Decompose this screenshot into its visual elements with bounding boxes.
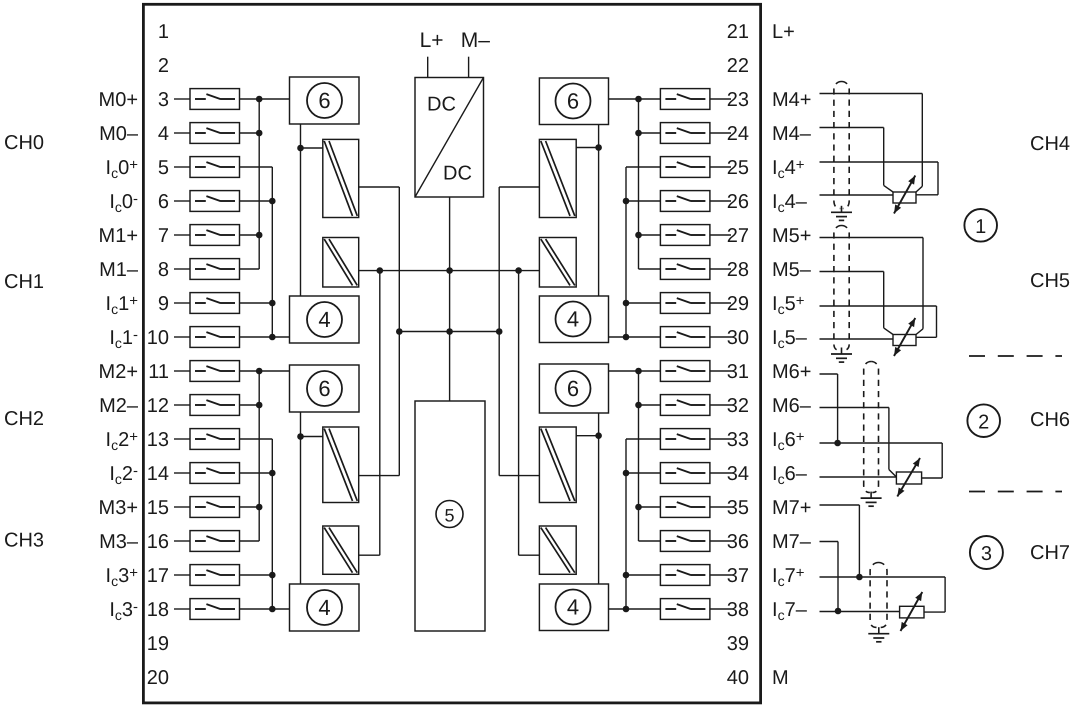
separator dashed line 2 <box>969 491 1062 493</box>
net label M5– (pin 28) <box>772 259 812 281</box>
pin 12 <box>147 395 169 417</box>
wire: DC/DC to block 5 <box>449 197 451 401</box>
contact switch pin 5 <box>190 157 240 178</box>
svg-text:29: 29 <box>727 293 749 315</box>
contact switch pin 7 <box>190 225 240 246</box>
pin 8 <box>158 259 169 281</box>
net label M4– (pin 24) <box>772 123 812 145</box>
wire: contact to pin 33 <box>710 438 731 440</box>
junction pin 23 <box>635 96 642 103</box>
DC/DC converter <box>415 78 484 198</box>
contact switch pin 13 <box>190 429 240 450</box>
svg-text:22: 22 <box>727 55 749 77</box>
wire: pin 3 to contact <box>174 98 190 100</box>
wire: pin 15 to contact <box>174 506 190 508</box>
svg-text:M4+: M4+ <box>772 89 811 111</box>
contact switch pin 14 <box>190 463 240 484</box>
pin 31 <box>727 361 749 383</box>
contact switch pin 12 <box>190 395 240 416</box>
svg-text:M5–: M5– <box>772 259 812 281</box>
isolation barrier (CH0/CH1 aux) <box>323 238 359 288</box>
net label 7+ (pin 37) <box>772 565 805 590</box>
svg-text:8: 8 <box>158 259 169 281</box>
svg-text:M3+: M3+ <box>99 497 138 519</box>
channel label CH0 <box>4 132 44 154</box>
wire M+ sense <box>820 238 924 335</box>
net label M6– (pin 32) <box>772 395 812 417</box>
wire: contact to pin 30 <box>710 336 731 338</box>
wire: to isolation (CH4/CH5) <box>576 147 598 149</box>
wire: contact to pin 25 <box>710 166 731 168</box>
wire: contact 13 to bus <box>240 438 273 440</box>
svg-text:4: 4 <box>318 307 330 332</box>
pin 38 <box>727 599 749 621</box>
svg-text:1: 1 <box>158 21 169 43</box>
pin 7 <box>158 225 169 247</box>
svg-text:38: 38 <box>727 599 749 621</box>
separator dashed line 1 <box>969 355 1062 357</box>
svg-text:20: 20 <box>147 667 169 689</box>
junction pin 30 <box>623 334 630 341</box>
pin 30 <box>727 327 749 349</box>
channel label CH4 <box>1030 133 1070 155</box>
svg-text:10: 10 <box>147 327 169 349</box>
svg-text:3: 3 <box>158 89 169 111</box>
wire: bus to contact 26 <box>626 200 660 202</box>
wire: contact to pin 23 <box>710 98 731 100</box>
wire: block6 to block4 (CH4/CH5) <box>598 125 600 297</box>
wire: pin 14 to contact <box>174 472 190 474</box>
contact switch pin 3 <box>190 89 240 110</box>
isolation barrier (CH6/CH7 aux) <box>539 526 576 574</box>
svg-text:39: 39 <box>727 633 749 655</box>
block 6 (CH0/CH1 input amplifier) <box>290 77 360 124</box>
wire M7+ jumper <box>820 505 860 577</box>
svg-text:6: 6 <box>158 191 169 213</box>
block 6 (CH2/CH3) <box>290 365 360 412</box>
net label 6– (pin 34) <box>772 463 808 487</box>
wire: contact to pin 36 <box>710 540 731 542</box>
pin 2 <box>158 55 169 77</box>
pin 10 <box>147 327 169 349</box>
cable shield CH7 <box>870 562 887 627</box>
svg-text:CH5: CH5 <box>1030 270 1070 292</box>
channel label CH7 <box>1030 542 1070 564</box>
wire: contact to pin 28 <box>710 268 731 270</box>
svg-text:18: 18 <box>147 599 169 621</box>
wire: bus to contact 29 <box>626 302 660 304</box>
svg-text:11: 11 <box>148 361 169 383</box>
contact switch pin 30 <box>660 327 710 348</box>
wire: pin 5 to contact <box>174 166 190 168</box>
svg-text:12: 12 <box>147 395 169 417</box>
svg-text:27: 27 <box>727 225 749 247</box>
pin 21 <box>727 21 749 43</box>
isolation barrier (CH2/CH3 aux) <box>323 526 359 574</box>
ground CH7 <box>868 627 889 642</box>
wire M6- <box>820 408 897 478</box>
junction <box>496 328 503 335</box>
pin 26 <box>727 191 749 213</box>
pin 36 <box>727 531 749 553</box>
svg-text:Ic6–: Ic6– <box>772 463 808 487</box>
wire: bus to contact 34 <box>626 472 660 474</box>
svg-text:24: 24 <box>727 123 749 145</box>
pin 23 <box>727 89 749 111</box>
wire: bus to contact 31 <box>609 370 661 372</box>
pin 29 <box>727 293 749 315</box>
svg-text:5: 5 <box>158 157 169 179</box>
svg-text:CH3: CH3 <box>4 530 44 552</box>
wire: pin 16 to contact <box>174 540 190 542</box>
wire: pin 18 to contact <box>174 608 190 610</box>
variable arrow CH7 <box>901 592 923 631</box>
junction <box>396 328 403 335</box>
block 6 (CH6/CH7) <box>539 364 608 413</box>
svg-text:M4–: M4– <box>772 123 812 145</box>
junction pin 14 <box>269 470 276 477</box>
svg-text:7: 7 <box>158 225 169 247</box>
contact switch pin 25 <box>660 157 710 178</box>
contact switch pin 27 <box>660 225 710 246</box>
wire M- sense <box>820 128 894 193</box>
pin 33 <box>727 429 749 451</box>
isolation barrier (CH6/CH7 signal) <box>539 427 576 503</box>
svg-text:1: 1 <box>975 216 986 238</box>
wire: contact to pin 38 <box>710 608 731 610</box>
wire M6+ jumper <box>820 374 838 443</box>
junction <box>515 267 522 274</box>
wire: contact to pin 37 <box>710 574 731 576</box>
contact switch pin 32 <box>660 395 710 416</box>
wire: pin 7 to contact <box>174 234 190 236</box>
svg-text:33: 33 <box>727 429 749 451</box>
wire M+ sense <box>820 94 923 193</box>
contact switch pin 34 <box>660 463 710 484</box>
wire: to isolation (CH0/CH1) <box>301 147 323 149</box>
wire: iso out CH0/CH1 to internal bus <box>359 187 400 476</box>
net label 2- (pin 14) <box>109 463 138 488</box>
channel label CH1 <box>4 271 44 293</box>
internal data bus (lower) <box>399 331 499 333</box>
net label 6+ (pin 33) <box>772 429 805 454</box>
svg-text:M5+: M5+ <box>772 225 811 247</box>
net label M3– (pin 16) <box>99 531 139 553</box>
wire: upper bus to right iso aux <box>519 271 540 556</box>
junction pin 9 <box>269 300 276 307</box>
svg-text:6: 6 <box>318 88 330 113</box>
junction pin 27 <box>635 232 642 239</box>
wire: Ic-bus CH6/CH7 <box>625 439 627 609</box>
contact switch pin 11 <box>190 361 240 382</box>
junction pin 24 <box>635 130 642 137</box>
contact switch pin 31 <box>660 361 710 382</box>
wire: contact 16 to bus <box>240 540 260 542</box>
net label M7+ (pin 35) <box>772 497 811 519</box>
svg-text:9: 9 <box>158 293 169 315</box>
svg-text:36: 36 <box>727 531 749 553</box>
wire: bus to contact 38 <box>609 608 661 610</box>
net label M6+ (pin 31) <box>772 361 811 383</box>
wire: contact 10 to bus <box>240 336 291 338</box>
channel label CH6 <box>1030 409 1070 431</box>
contact switch pin 28 <box>660 259 710 280</box>
contact switch pin 36 <box>660 531 710 552</box>
cable shield CH6 <box>864 362 879 493</box>
wire: bus to contact 35 <box>639 506 661 508</box>
ground CH4 <box>831 206 852 221</box>
wire: contact 14 to bus <box>240 472 273 474</box>
wire: pin 12 to contact <box>174 404 190 406</box>
contact switch pin 33 <box>660 429 710 450</box>
svg-text:L+: L+ <box>420 29 444 52</box>
svg-text:6: 6 <box>567 376 579 401</box>
pin 18 <box>147 599 169 621</box>
resistor RTD <box>893 335 916 346</box>
contact switch pin 29 <box>660 293 710 314</box>
svg-text:17: 17 <box>147 565 169 587</box>
junction pin 35 <box>635 504 642 511</box>
junction <box>446 267 453 274</box>
wire Ic+ current <box>820 306 937 337</box>
resistor RTD CH6 <box>896 472 921 484</box>
junction pin 18 <box>269 606 276 613</box>
junction pin 34 <box>623 470 630 477</box>
net label M (pin 40) <box>772 667 789 689</box>
contact switch pin 17 <box>190 565 240 586</box>
block 4 (CH0/CH1) <box>290 296 360 343</box>
wire: bus to contact 33 <box>626 438 660 440</box>
pin 17 <box>147 565 169 587</box>
svg-text:CH0: CH0 <box>4 132 44 154</box>
note ref 1 <box>964 209 997 242</box>
svg-text:M2+: M2+ <box>99 361 138 383</box>
pin 32 <box>727 395 749 417</box>
junction <box>446 328 453 335</box>
wire: bus to contact 23 <box>609 98 661 100</box>
junction node <box>297 145 304 152</box>
isolation barrier (CH2/CH3 signal) <box>323 427 359 503</box>
svg-text:16: 16 <box>147 531 169 553</box>
svg-text:DC: DC <box>443 163 472 185</box>
channel label CH2 <box>4 408 44 430</box>
ground CH6 <box>861 492 882 507</box>
svg-text:32: 32 <box>727 395 749 417</box>
junction <box>377 267 384 274</box>
pin 25 <box>727 157 749 179</box>
junction pin 11 <box>256 368 263 375</box>
net label 1- (pin 10) <box>109 327 138 352</box>
pin 39 <box>727 633 749 655</box>
isolation barrier (CH4/CH5 signal) <box>539 139 576 217</box>
wire: contact to pin 26 <box>710 200 731 202</box>
svg-text:31: 31 <box>727 361 749 383</box>
block 4 (CH6/CH7) <box>539 584 608 631</box>
wire: contact to pin 29 <box>710 302 731 304</box>
block 5 (backplane bus interface) <box>415 401 485 631</box>
junction pin 4 <box>256 130 263 137</box>
svg-text:Ic4–: Ic4– <box>772 191 808 215</box>
wire: contact to pin 32 <box>710 404 731 406</box>
wire: bus to contact 30 <box>609 336 661 338</box>
svg-text:4: 4 <box>158 123 169 145</box>
contact switch pin 4 <box>190 123 240 144</box>
variable arrow <box>894 318 915 356</box>
junction pin 3 <box>256 96 263 103</box>
wire: M-bus CH0/CH1 <box>258 99 260 269</box>
wire: Ic-bus CH0/CH1 <box>271 167 273 337</box>
svg-text:M3–: M3– <box>99 531 139 553</box>
wire: Ic-bus CH2/CH3 <box>271 439 273 609</box>
svg-text:M6–: M6– <box>772 395 812 417</box>
wire: block6 to block4 (CH6/CH7) <box>598 413 600 584</box>
svg-text:CH1: CH1 <box>4 271 44 293</box>
junction <box>595 432 602 439</box>
wire: pin 4 to contact <box>174 132 190 134</box>
pin 19 <box>147 633 169 655</box>
resistor RTD <box>893 192 916 203</box>
wire: contact 18 to bus <box>240 608 291 610</box>
wire: M-bus CH6/CH7 <box>638 371 640 541</box>
svg-text:21: 21 <box>727 21 749 43</box>
contact switch pin 16 <box>190 531 240 552</box>
svg-text:3: 3 <box>981 543 992 565</box>
pin 9 <box>158 293 169 315</box>
contact switch pin 9 <box>190 293 240 314</box>
wire: contact 11 to bus <box>240 370 291 372</box>
svg-text:DC: DC <box>427 94 456 116</box>
svg-text:19: 19 <box>147 633 169 655</box>
net label 7– (pin 38) <box>772 599 808 623</box>
wire: pin 6 to contact <box>174 200 190 202</box>
junction pin 37 <box>623 572 630 579</box>
note ref 3 <box>970 536 1003 569</box>
svg-text:M6+: M6+ <box>772 361 811 383</box>
pin 16 <box>147 531 169 553</box>
contact switch pin 35 <box>660 497 710 518</box>
contact switch pin 24 <box>660 123 710 144</box>
block 4 (CH4/CH5) <box>539 296 608 343</box>
svg-text:25: 25 <box>727 157 749 179</box>
wire: pin 11 to contact <box>174 370 190 372</box>
svg-text:Ic5–: Ic5– <box>772 327 808 351</box>
junction pin 17 <box>269 572 276 579</box>
svg-text:4: 4 <box>567 595 579 620</box>
svg-text:CH7: CH7 <box>1030 542 1070 564</box>
svg-text:M2–: M2– <box>99 395 139 417</box>
svg-text:40: 40 <box>727 667 749 689</box>
svg-text:13: 13 <box>147 429 169 451</box>
svg-text:M7–: M7– <box>772 531 812 553</box>
wire: contact to pin 34 <box>710 472 731 474</box>
pin 24 <box>727 123 749 145</box>
net label M3+ (pin 15) <box>99 497 138 519</box>
wire Ic7+ <box>820 577 946 612</box>
wire: to isolation (CH2/CH3) <box>301 436 323 438</box>
net label M0+ (pin 3) <box>99 89 138 111</box>
svg-text:37: 37 <box>727 565 749 587</box>
wire: contact 7 to bus <box>240 234 260 236</box>
svg-text:M7+: M7+ <box>772 497 811 519</box>
pin 15 <box>147 497 169 519</box>
pin 22 <box>727 55 749 77</box>
variable arrow <box>894 176 915 214</box>
wire: pin 8 to contact <box>174 268 190 270</box>
net label M5+ (pin 27) <box>772 225 811 247</box>
resistor RTD CH7 <box>900 606 924 618</box>
wire: block6 to block4 (CH2/CH3) <box>300 412 302 584</box>
net label 4– (pin 26) <box>772 191 808 215</box>
wire: M- feed <box>468 57 470 78</box>
module boundary <box>143 4 760 703</box>
wire: contact 4 to bus <box>240 132 260 134</box>
contact switch pin 8 <box>190 259 240 280</box>
net label M1– (pin 8) <box>99 259 139 281</box>
wire: block6 to block4 (CH0/CH1) <box>300 124 302 296</box>
svg-text:4: 4 <box>567 307 579 332</box>
wire: bus to contact 24 <box>639 132 661 134</box>
channel label CH3 <box>4 530 44 552</box>
junction pin 26 <box>623 198 630 205</box>
wire: bus to contact 37 <box>626 574 660 576</box>
wire Ic6+ <box>820 443 943 478</box>
wire: contact to pin 31 <box>710 370 731 372</box>
svg-text:26: 26 <box>727 191 749 213</box>
power label L+ <box>420 29 444 52</box>
wire: bus to contact 25 <box>626 166 660 168</box>
junction M7+/Ic7+ <box>856 574 863 581</box>
net label 0+ (pin 5) <box>106 157 139 182</box>
junction pin 29 <box>623 300 630 307</box>
net label 5– (pin 30) <box>772 327 808 351</box>
svg-text:2: 2 <box>158 55 169 77</box>
pin 11 <box>148 361 169 383</box>
pin 28 <box>727 259 749 281</box>
junction M7-/Ic7- <box>835 608 842 615</box>
svg-text:6: 6 <box>567 89 579 114</box>
junction pin 38 <box>623 606 630 613</box>
pin 3 <box>158 89 169 111</box>
contact switch pin 10 <box>190 327 240 348</box>
wire: contact 6 to bus <box>240 200 273 202</box>
pin 1 <box>158 21 169 43</box>
wire M- sense <box>820 272 894 335</box>
cable shield CH4 <box>834 81 849 208</box>
svg-text:M0–: M0– <box>99 123 139 145</box>
pin 34 <box>727 463 749 485</box>
wire: L+ feed <box>427 57 429 78</box>
wire: contact to pin 27 <box>710 234 731 236</box>
svg-text:15: 15 <box>147 497 169 519</box>
svg-text:CH6: CH6 <box>1030 409 1070 431</box>
wire: pin 17 to contact <box>174 574 190 576</box>
wire Ic7- <box>820 611 900 613</box>
net label M7– (pin 36) <box>772 531 812 553</box>
junction pin 7 <box>256 232 263 239</box>
pin 35 <box>727 497 749 519</box>
net label M2– (pin 12) <box>99 395 139 417</box>
svg-text:30: 30 <box>727 327 749 349</box>
pin 20 <box>147 667 169 689</box>
pin 4 <box>158 123 169 145</box>
ground CH5 <box>831 348 852 363</box>
junction node <box>297 433 304 440</box>
net label M0– (pin 4) <box>99 123 139 145</box>
pin 27 <box>727 225 749 247</box>
wire Ic- current <box>820 338 894 340</box>
junction pin 15 <box>256 504 263 511</box>
wire: contact to pin 35 <box>710 506 731 508</box>
